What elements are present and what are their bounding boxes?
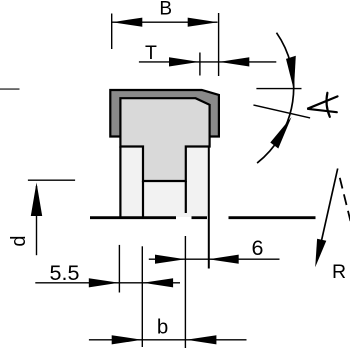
dimension 5.5 extension line left	[118, 245, 120, 293]
angle A upper arrowhead	[286, 56, 296, 90]
svg-text:d: d	[8, 235, 30, 246]
dimension T line	[139, 61, 276, 63]
top surface reference line	[0, 88, 20, 90]
dimension 5.5 left-pointing arrowhead	[143, 278, 173, 287]
radius R leader line	[321, 169, 338, 246]
dimension d arrow shaft	[36, 186, 38, 255]
elastomer body (T-shape, light gray)	[120, 98, 209, 181]
dimension 6 right-pointing arrowhead	[155, 255, 185, 264]
lighter legs region (U shape below body)	[120, 147, 210, 218]
angle A inclined flank line	[253, 105, 310, 118]
angle A arc	[257, 33, 294, 163]
svg-text:6: 6	[252, 236, 264, 260]
right leg outer edge + extension down to 6-dim	[208, 147, 210, 269]
inner vertical left (stem to baseline)	[142, 181, 144, 217]
dimension T left arrowhead	[169, 57, 199, 66]
dimension B left arrowhead	[112, 18, 142, 27]
baseline (mounting surface) left segment	[90, 216, 176, 219]
svg-text:b: b	[157, 315, 168, 338]
dimension 5.5 / b shared extension line	[141, 246, 143, 347]
left leg outer edge	[119, 147, 121, 217]
angle A lower arrowhead	[270, 117, 291, 149]
angle A horizontal flank line	[256, 88, 301, 90]
dimension B extension line left	[111, 14, 113, 50]
dimension T right arrowhead	[219, 57, 249, 66]
dimension B right arrowhead	[188, 18, 218, 27]
dimension b line	[89, 339, 247, 341]
dimension b right-pointing arrowhead	[112, 335, 142, 344]
label A (rotated letter A pointing left)	[307, 93, 337, 117]
dimension 6 left-pointing arrowhead	[209, 255, 239, 264]
dimension d arrowhead	[31, 183, 42, 217]
dimension 5.5 right-pointing arrowhead	[89, 278, 119, 287]
dimension 5.5 line	[35, 282, 180, 284]
dimension b extension line right	[184, 236, 186, 348]
dimension B line	[112, 21, 218, 23]
dimension 6 line	[149, 258, 280, 260]
inner vertical right (stops above baseline)	[185, 181, 187, 213]
svg-text:T: T	[145, 42, 157, 64]
detail view dashed boundary	[340, 178, 350, 221]
svg-text:B: B	[159, 0, 172, 20]
dimension T tick	[199, 53, 201, 76]
metal cap (dark gray case)	[110, 90, 219, 137]
radius R leader arrowhead	[315, 239, 326, 268]
dimension B extension line right (shared with T)	[218, 13, 220, 76]
svg-text:R: R	[332, 261, 346, 283]
dimension b left-pointing arrowhead	[186, 335, 216, 344]
groove depth reference line for d	[28, 179, 75, 181]
svg-text:5.5: 5.5	[50, 261, 80, 285]
baseline right segment	[229, 216, 316, 219]
baseline middle segment	[192, 216, 208, 219]
